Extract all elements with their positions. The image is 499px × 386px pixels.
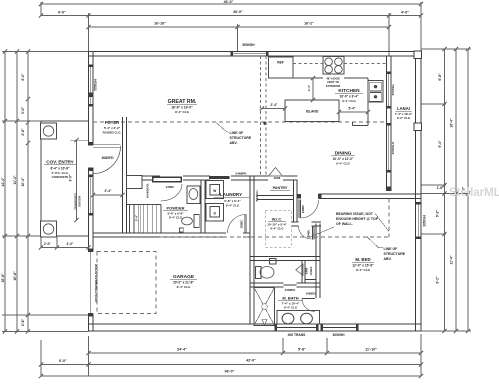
- window 5050SH left wall: [88, 65, 98, 107]
- cov entry vertical dim 3'-0": [69, 138, 89, 222]
- wic shelves dashed: [266, 210, 292, 247]
- dashed line of structure above (mbed): [160, 199, 389, 238]
- lanai window 5040SH: [386, 72, 395, 109]
- svg-text:2468PK: 2468PK: [235, 171, 247, 175]
- kitchen depth dim 3'-4": [307, 76, 315, 102]
- laundry pocket door 2468PK: [209, 171, 247, 179]
- svg-text:24'-4": 24'-4": [177, 348, 187, 352]
- svg-text:ISLAND: ISLAND: [306, 110, 319, 114]
- garage label: [170, 274, 197, 289]
- right dim vertical x468: [466, 47, 470, 333]
- svg-text:OF WALL.: OF WALL.: [336, 222, 353, 226]
- svg-text:BEARING ISSUE, NOT: BEARING ISSUE, NOT: [336, 212, 374, 216]
- powder pocket door 2468C: [161, 184, 183, 201]
- right small dim texts 1'-8" 3'-0": [437, 186, 466, 193]
- svg-text:2868C: 2868C: [240, 219, 244, 228]
- island dim 2'-4": [260, 103, 287, 111]
- svg-text:3050SH: 3050SH: [423, 215, 427, 227]
- left dim vertical x28: [21, 49, 30, 333]
- powder toilet: [180, 215, 200, 233]
- foyer label: [103, 120, 122, 134]
- bottom exterior wall: [89, 324, 422, 331]
- cov entry label: [44, 160, 76, 180]
- washer: [206, 181, 224, 199]
- svg-text:2'-0": 2'-0": [44, 242, 51, 246]
- svg-text:9'-4": 9'-4": [438, 140, 442, 148]
- svg-text:46'-0": 46'-0": [224, 0, 234, 4]
- svg-text:2'-4": 2'-4": [271, 103, 278, 107]
- cov entry slab: [41, 121, 89, 236]
- pantry bifold 2668: [269, 168, 283, 180]
- top exterior wall: [89, 52, 422, 57]
- svg-text:3'-0": 3'-0": [69, 174, 73, 181]
- watermark StellarMLS: [449, 187, 499, 199]
- toilet paper box: [270, 259, 277, 265]
- window 3050SH bottom wall: [321, 324, 359, 338]
- lanai column top right: [414, 51, 422, 59]
- left dim vertical x17: [13, 49, 19, 333]
- wic door 2468: [299, 226, 315, 240]
- dashed line of structure above (great room): [93, 122, 387, 125]
- svg-text:3080FD: 3080FD: [101, 156, 114, 160]
- mbed west wall: [316, 224, 320, 299]
- handrail label: [146, 183, 150, 198]
- svg-text:5'-8": 5'-8": [298, 348, 306, 352]
- svg-text:GREAT RM.: GREAT RM.: [168, 99, 197, 105]
- svg-text:LAUNDRY: LAUNDRY: [220, 192, 242, 197]
- dim line bottom row3 (46'-0"): [39, 370, 423, 379]
- svg-text:RAISED CLG.: RAISED CLG.: [103, 130, 122, 134]
- window 400 TRANS bottom wall: [275, 324, 319, 338]
- svg-text:3'-0": 3'-0": [21, 106, 25, 114]
- svg-text:12'-0" x 15'-8": 12'-0" x 15'-8": [352, 264, 374, 268]
- linen bifold 2468: [296, 264, 313, 276]
- cov entry dim row (2'-0" / 4'-0"): [39, 236, 91, 250]
- svg-text:REF: REF: [277, 61, 284, 65]
- kitchen sink: [368, 81, 383, 103]
- mbath door 2468DC: [302, 291, 317, 311]
- svg-text:9'-4" CLG: 9'-4" CLG: [270, 227, 284, 231]
- lanai west wall: [387, 56, 392, 191]
- svg-text:9'-4" CLG: 9'-4" CLG: [175, 110, 190, 114]
- svg-text:8070 OVERHEAD DOOR: 8070 OVERHEAD DOOR: [95, 264, 99, 302]
- svg-text:StellarMLS: StellarMLS: [449, 187, 499, 199]
- svg-text:3'-4": 3'-4": [307, 84, 311, 91]
- mbed label: [352, 257, 374, 272]
- laundry-garage door 2868C: [227, 214, 246, 233]
- svg-text:11'-10": 11'-10": [365, 348, 377, 352]
- svg-text:EXTERIOR: EXTERIOR: [326, 84, 340, 88]
- svg-text:16'-10": 16'-10": [154, 22, 166, 26]
- svg-text:2468PK: 2468PK: [285, 288, 297, 292]
- svg-text:46'-0": 46'-0": [225, 370, 235, 374]
- dim line bottom row2 (6'-0" / 42'-0"): [39, 359, 423, 367]
- window 5050SH top wall great room: [231, 43, 269, 57]
- island: [285, 100, 339, 122]
- garage overhead door opening: [88, 248, 99, 316]
- svg-text:2468: 2468: [307, 230, 311, 237]
- dim extension verticals bottom: [41, 334, 421, 376]
- lanai slider 4050SLD: [386, 123, 395, 172]
- pantry bottom wall: [257, 196, 294, 200]
- fridge REF: [269, 57, 294, 78]
- mbed top wall: [297, 194, 421, 199]
- hall toilet: [256, 267, 275, 279]
- svg-text:3050SH: 3050SH: [333, 333, 346, 337]
- mbath pocket door 2468PK: [284, 285, 297, 292]
- bearing issue note: [311, 212, 389, 237]
- svg-text:14'-4": 14'-4": [1, 177, 5, 187]
- powder right wall: [201, 180, 205, 233]
- svg-text:5050SH: 5050SH: [94, 79, 98, 91]
- svg-text:9'-4" CLG: 9'-4" CLG: [284, 306, 298, 310]
- svg-text:STRUCTURE: STRUCTURE: [230, 136, 252, 140]
- svg-text:ABV.: ABV.: [384, 257, 392, 261]
- svg-text:2'-8": 2'-8": [21, 318, 25, 326]
- svg-text:5050SH: 5050SH: [242, 43, 255, 47]
- svg-text:16'-2": 16'-2": [304, 22, 314, 26]
- svg-text:LANAI: LANAI: [397, 106, 410, 111]
- svg-text:10'-4": 10'-4": [21, 177, 25, 187]
- svg-text:3'-4": 3'-4": [105, 189, 112, 193]
- svg-text:COV. ENTRY: COV. ENTRY: [46, 160, 73, 165]
- svg-text:LINEN: LINEN: [309, 267, 313, 276]
- right dim horizontal extensions: [421, 49, 471, 331]
- svg-text:LINE OF: LINE OF: [230, 131, 245, 135]
- foyer right wall: [123, 117, 127, 233]
- pantry top wall: [254, 176, 298, 180]
- svg-text:2468C: 2468C: [301, 204, 305, 213]
- svg-text:PANTRY: PANTRY: [273, 186, 288, 190]
- foyer dim 3'-4": [91, 189, 125, 197]
- mbed entry door 2468C: [299, 200, 319, 219]
- svg-text:FOYER: FOYER: [105, 120, 119, 125]
- svg-text:9'-4" CLG: 9'-4" CLG: [356, 268, 371, 272]
- svg-text:6'-0": 6'-0": [58, 11, 66, 15]
- lanai wall end block: [387, 187, 392, 192]
- svg-text:4'-0": 4'-0": [401, 11, 409, 15]
- svg-text:2'-8": 2'-8": [21, 128, 25, 136]
- svg-text:5050SH: 5050SH: [78, 196, 82, 207]
- right dim vertical x456: [450, 47, 459, 333]
- svg-text:CONCRETE: CONCRETE: [52, 175, 69, 179]
- svg-text:4050SLD: 4050SLD: [391, 141, 395, 155]
- svg-text:W: W: [213, 189, 216, 193]
- wic bottom wall: [250, 257, 320, 261]
- wic label: [267, 217, 287, 231]
- svg-text:9'-4" CLG: 9'-4" CLG: [169, 216, 183, 220]
- svg-text:ABV.: ABV.: [230, 141, 238, 145]
- svg-text:W.I.C.: W.I.C.: [272, 217, 283, 222]
- dining dashed structure line: [261, 56, 267, 176]
- window 3050SH right wall m.bed: [415, 202, 427, 239]
- right dim vertical x444.5: [436, 47, 447, 333]
- stair landing rect: [127, 176, 143, 189]
- svg-text:9'-4" CLG: 9'-4" CLG: [226, 203, 240, 207]
- shower: [254, 288, 275, 326]
- svg-text:9'-4" CLG: 9'-4" CLG: [336, 161, 350, 165]
- svg-text:9'-4" CLG: 9'-4" CLG: [177, 285, 191, 289]
- dining label: [331, 151, 355, 166]
- svg-text:11'-4": 11'-4": [13, 175, 17, 184]
- svg-text:2468DC: 2468DC: [306, 291, 318, 295]
- left dim horizontal extensions: [2, 52, 89, 332]
- stove: [323, 57, 344, 75]
- entry door 3080FD: [88, 142, 121, 173]
- hall cased opening header: [152, 177, 182, 183]
- svg-text:M. BED: M. BED: [355, 257, 370, 262]
- mbath label: [278, 296, 303, 310]
- great room label: [167, 99, 197, 114]
- laundry label: [214, 192, 250, 207]
- stairs: [127, 205, 162, 234]
- line of structure note (great room): [216, 123, 252, 146]
- svg-text:M. BATH: M. BATH: [282, 296, 298, 301]
- mbath vanity: [277, 311, 320, 325]
- line of structure note (mbed): [367, 237, 406, 261]
- garage door dashed track: [97, 252, 156, 314]
- svg-text:9'-0" CLG: 9'-0" CLG: [397, 116, 411, 120]
- svg-text:HANDRAIL: HANDRAIL: [146, 183, 150, 198]
- kitchen counter edge: [293, 78, 368, 126]
- dim line 46'-0" overall top: [39, 0, 423, 6]
- svg-text:400 TRANS: 400 TRANS: [288, 333, 307, 337]
- dim line row3 top (16'-10" / 16'-2"): [86, 22, 391, 30]
- svg-text:1'-8": 1'-8": [437, 186, 444, 190]
- entry column lower: [41, 221, 57, 237]
- long interior wall laundry-garage-mbath: [250, 176, 254, 324]
- kitchen upper cabinets dashed: [293, 63, 387, 65]
- dim line row2 top (6'-0" / 36'-0" / 4'-0"): [39, 10, 423, 18]
- svg-text:STRUCTURE: STRUCTURE: [384, 252, 406, 256]
- svg-text:4'-0": 4'-0": [67, 242, 74, 246]
- bench label: [255, 190, 259, 202]
- svg-text:2468C: 2468C: [166, 185, 175, 189]
- linen closet walls: [302, 261, 316, 284]
- svg-text:10'-8": 10'-8": [13, 271, 17, 281]
- svg-text:9'-2": 9'-2": [436, 276, 440, 284]
- lanai column mid right: [414, 123, 422, 131]
- svg-text:3'-4": 3'-4": [135, 214, 139, 221]
- svg-text:11'-4": 11'-4": [450, 255, 454, 264]
- svg-text:9'-4" CLG: 9'-4" CLG: [342, 99, 356, 103]
- right exterior wall (lanai edge + m.bed): [416, 52, 422, 332]
- svg-text:16'-4": 16'-4": [450, 118, 454, 128]
- svg-text:2468: 2468: [304, 267, 308, 274]
- svg-text:LINE OF: LINE OF: [384, 247, 399, 251]
- stair dim 3'-4": [135, 205, 141, 234]
- powder label: [163, 206, 188, 220]
- svg-text:POWDER: POWDER: [167, 206, 185, 211]
- dim line bottom row1 (24'-4" / 5'-8" / 11'-10"): [86, 348, 423, 356]
- mbath top wall: [250, 283, 320, 287]
- pantry right wall: [294, 180, 298, 222]
- lanai label: [395, 106, 413, 120]
- dryer: [206, 204, 224, 222]
- svg-text:5040SH: 5040SH: [391, 85, 395, 96]
- hall wall with wic door: [292, 222, 321, 226]
- hall top wall: [142, 176, 254, 180]
- svg-text:KITCHEN: KITCHEN: [338, 88, 360, 94]
- svg-text:6'-8": 6'-8": [438, 73, 442, 81]
- svg-text:42'-0": 42'-0": [246, 359, 256, 363]
- island dim 5'-4": [337, 107, 370, 115]
- pantry label: [270, 186, 290, 190]
- svg-text:5'-4": 5'-4": [349, 107, 356, 111]
- svg-text:16'-8": 16'-8": [1, 273, 5, 283]
- entry column upper: [41, 123, 57, 139]
- kitchen label: [335, 88, 363, 103]
- left exterior wall: [89, 52, 94, 332]
- hood vent note: [326, 77, 340, 88]
- left dim vertical x5: [1, 49, 7, 333]
- svg-text:36'-0": 36'-0": [233, 10, 243, 14]
- powder sink vanity: [187, 186, 200, 204]
- tempered window left wall: [74, 175, 94, 216]
- dim extension verticals top: [41, 2, 421, 56]
- svg-text:6'-0": 6'-0": [21, 73, 25, 81]
- svg-text:2668: 2668: [274, 176, 281, 180]
- svg-text:ENOUGH HEIGHT @ TOP: ENOUGH HEIGHT @ TOP: [336, 217, 379, 221]
- garage top wall: [93, 233, 250, 237]
- svg-text:5'-2": 5'-2": [436, 209, 440, 217]
- svg-text:6'-0": 6'-0": [59, 359, 67, 363]
